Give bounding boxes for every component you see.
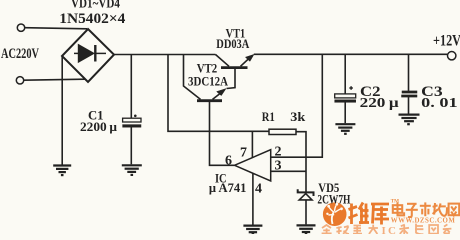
wire unregulated tap down to op-amp rail (168, 55, 269, 132)
wire C3 bottom lead (408, 97, 410, 114)
ground (C2) (335, 124, 355, 134)
watermark slogan WANG2 (429, 225, 438, 234)
svg-text:6: 6 (225, 153, 232, 168)
wire bridge left vertex down to ground (61, 56, 63, 165)
watermark slogan QIU (336, 226, 349, 234)
svg-text:R1: R1 (262, 109, 275, 124)
wire AC bottom to bridge (24, 79, 85, 80)
svg-text:3k: 3k (290, 109, 306, 124)
terminal +12V output (448, 52, 456, 60)
watermark hanzi CHANG (433, 203, 447, 216)
ground (C3) (399, 115, 420, 125)
transistor VT2 3DC12A (184, 55, 227, 101)
wire C2 bottom lead (344, 102, 346, 123)
zener diode VD5 2CW7H (298, 189, 314, 224)
svg-text:4: 4 (255, 182, 262, 197)
capacitor C1 (electrolytic) (123, 115, 141, 128)
svg-text:VD1~VD4: VD1~VD4 (71, 0, 120, 11)
wire C2 top lead (344, 54, 346, 94)
svg-text:3DC12A: 3DC12A (188, 74, 229, 89)
svg-text:7: 7 (240, 146, 247, 161)
wire pin3 to reference node (271, 170, 306, 172)
svg-text:3: 3 (275, 159, 282, 174)
wire R1 right to reference node (296, 132, 306, 192)
ground (op-amp pin4) (243, 226, 262, 234)
wire AC top to bridge (25, 28, 87, 29)
svg-text:220 μ: 220 μ (360, 95, 399, 110)
watermark slogan ZHAN (443, 224, 452, 233)
wire main bus left (rectifier output) (113, 54, 216, 56)
watermark hanzi DIAN (393, 202, 404, 215)
watermark hanzi KU (371, 204, 389, 225)
wire main bus right (+12V rail) (254, 53, 448, 55)
wire pin7 supply (251, 131, 253, 157)
watermark logo disc (323, 202, 347, 226)
ground (C1) (122, 165, 142, 175)
svg-text:1N5402×4: 1N5402×4 (59, 11, 126, 27)
watermark hanzi WEI (349, 203, 370, 225)
watermark slogan QUAN (322, 225, 332, 233)
svg-text:2CW7H: 2CW7H (317, 193, 350, 207)
svg-text:0. 01: 0. 01 (421, 95, 458, 110)
svg-text:WWW.DZSC.COM: WWW.DZSC.COM (391, 218, 456, 225)
watermark hanzi SHI (420, 202, 431, 216)
resistor R1 (269, 129, 296, 134)
wire pin6 output to VT2 base (210, 102, 235, 165)
watermark hanzi WANG (449, 204, 460, 216)
terminal AC top (17, 24, 24, 31)
svg-text:μ A741: μ A741 (209, 181, 247, 195)
bridge rectifier VD1~VD4 (62, 29, 114, 82)
ground (bridge negative) (53, 166, 71, 176)
wire pin2 sense to +12V rail (271, 54, 323, 157)
svg-text:2200 μ: 2200 μ (80, 119, 118, 134)
watermark slogan ZUI (353, 226, 362, 234)
svg-text:IC: IC (382, 225, 399, 234)
op-amp U1 uA741 (235, 150, 271, 181)
svg-text:DD03A: DD03A (216, 37, 249, 51)
transistor VT1 DD03A (216, 54, 255, 88)
svg-text:AC220V: AC220V (1, 46, 39, 62)
ground (VD5) (297, 225, 316, 233)
wire C1 top lead (130, 55, 132, 119)
capacitor C3 (402, 91, 418, 97)
wire C1 bottom lead (130, 127, 132, 164)
watermark slogan GOU (415, 224, 423, 235)
svg-text:2: 2 (275, 145, 282, 160)
watermark hanzi ZI (406, 204, 418, 217)
capacitor C2 (electrolytic) (335, 86, 356, 102)
terminal AC bottom (16, 77, 23, 84)
wire pin4 to ground (252, 174, 254, 225)
svg-text:+12V: +12V (433, 33, 460, 50)
watermark slogan CAI (399, 225, 409, 235)
watermark slogan DA (369, 225, 378, 234)
wire C3 top lead (408, 54, 410, 91)
